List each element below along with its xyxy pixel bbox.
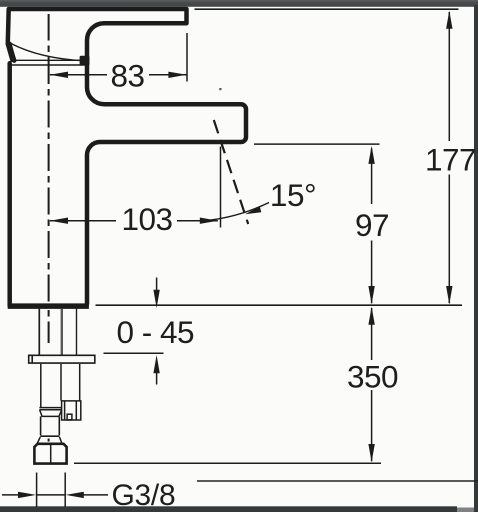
faucet base bottom edge xyxy=(8,303,89,309)
mounting flange xyxy=(29,355,95,363)
taper cone xyxy=(40,410,62,416)
bottom gray border bar xyxy=(0,506,457,512)
inner hose gray band xyxy=(61,309,63,355)
pivot nub xyxy=(80,56,90,66)
svg-text:97: 97 xyxy=(355,207,389,243)
seam line 1 xyxy=(14,59,85,61)
lever grip thick edge xyxy=(8,43,13,62)
extension lines: G3/8 xyxy=(37,473,66,508)
lower tube xyxy=(40,416,59,436)
centerline (dash-dot) xyxy=(48,14,50,442)
extension line: deck xyxy=(96,304,463,306)
arc arrowhead xyxy=(245,206,261,214)
stray dot xyxy=(219,88,221,90)
dim 83 xyxy=(50,58,187,94)
valve notch xyxy=(67,414,72,420)
right gray border bar xyxy=(474,5,478,512)
svg-text:350: 350 xyxy=(347,358,398,394)
dim 177 xyxy=(425,11,476,305)
extension line: flange top xyxy=(104,352,164,354)
svg-text:103: 103 xyxy=(121,201,172,237)
dim 103 xyxy=(50,201,218,237)
svg-text:G3/8: G3/8 xyxy=(112,479,176,512)
svg-text:83: 83 xyxy=(110,58,144,94)
seam line 2 xyxy=(11,64,86,66)
collar double line xyxy=(39,408,62,410)
dim G3/8 xyxy=(2,479,175,512)
extension line: faucet top to 177 xyxy=(195,8,459,10)
angle arc leader xyxy=(202,203,269,222)
flare collar xyxy=(37,437,62,443)
extension line: 83 right xyxy=(186,33,188,82)
svg-text:0 - 45: 0 - 45 xyxy=(117,314,195,350)
dim 15 degrees : dashed tilted line xyxy=(214,120,248,224)
threaded stem right edge xyxy=(76,309,78,355)
svg-text:177: 177 xyxy=(425,141,476,177)
lever seam curve xyxy=(11,44,84,61)
threaded stem left edge xyxy=(38,309,40,355)
faucet body outline xyxy=(8,9,246,306)
dim 97 xyxy=(355,146,389,305)
extension line: angle vertical xyxy=(220,147,222,228)
extension line: nut bottom xyxy=(74,462,381,464)
dim 350 xyxy=(347,307,398,463)
side valve block xyxy=(62,401,81,420)
thin table border line bottom right xyxy=(197,480,478,482)
svg-text:15°: 15° xyxy=(270,177,316,213)
tube below flange xyxy=(41,364,80,407)
hose nut xyxy=(34,444,66,464)
dim 0-45 xyxy=(117,278,195,385)
extension line: spout bottom to 97 xyxy=(254,143,380,145)
